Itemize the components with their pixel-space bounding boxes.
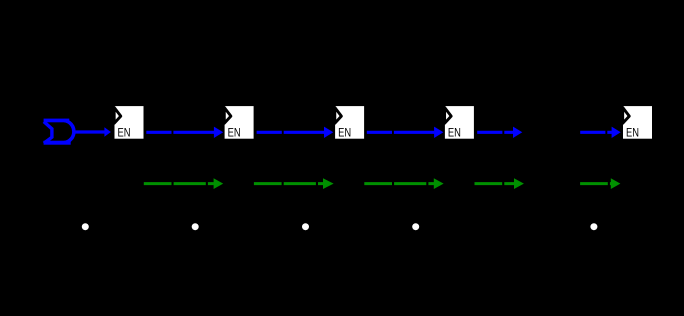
svg-text:EN: EN xyxy=(228,126,241,140)
svg-text:EN: EN xyxy=(118,126,131,140)
svg-text:EN: EN xyxy=(626,126,639,140)
svg-text:EN: EN xyxy=(338,126,351,140)
svg-text:EN: EN xyxy=(448,126,461,140)
